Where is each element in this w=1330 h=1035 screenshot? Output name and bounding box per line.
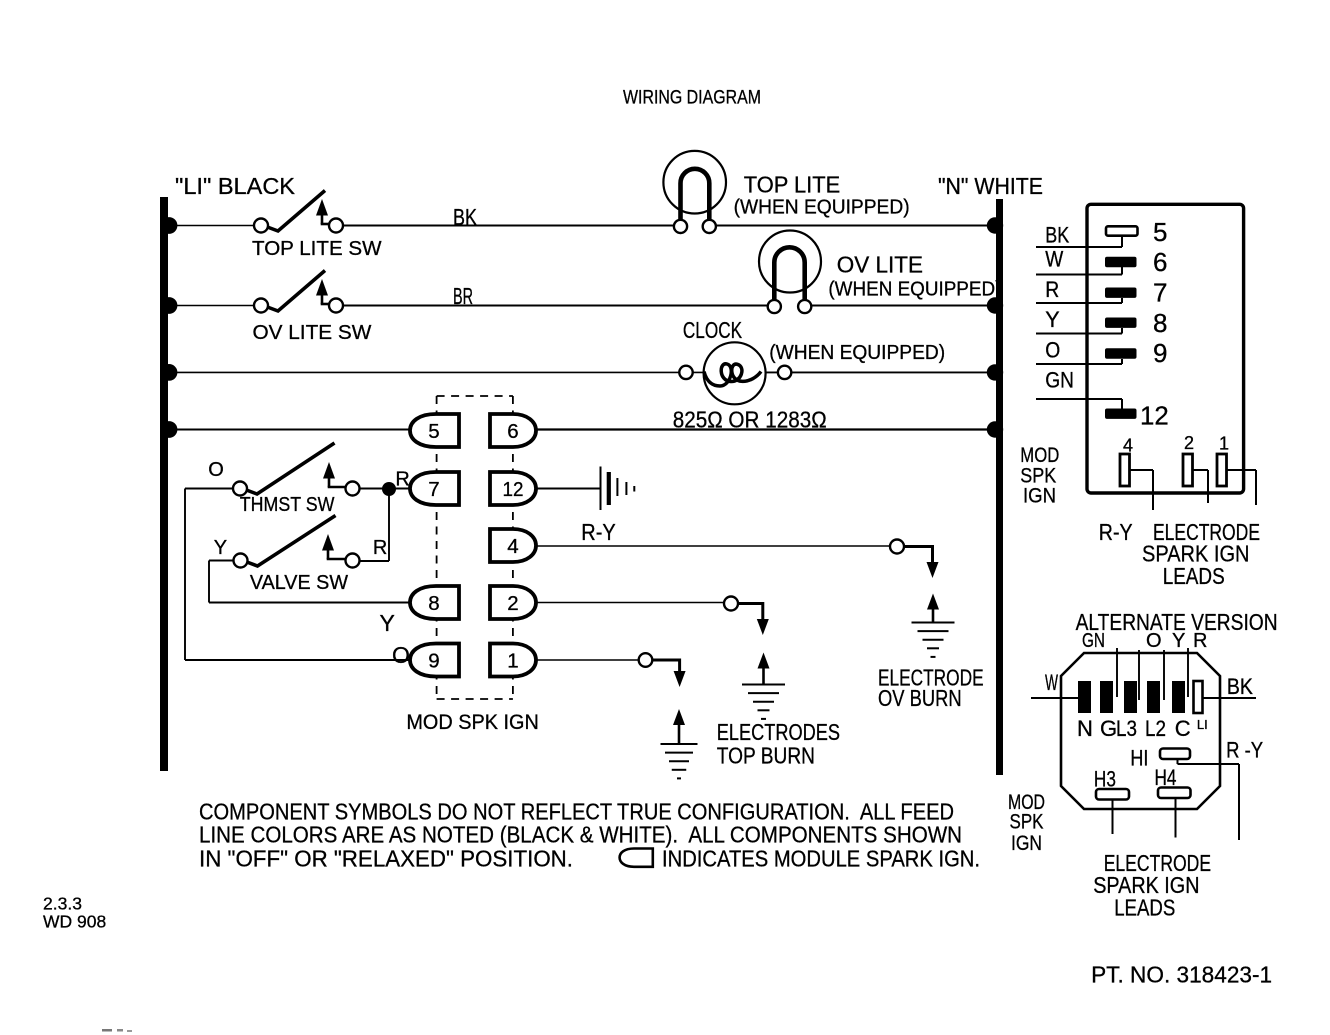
alternate terminal bar 4 — [1147, 681, 1160, 713]
connector MOD SPK IGN block outline — [1087, 204, 1244, 493]
svg-text:6: 6 — [507, 420, 518, 443]
connector pad pin 6 — [1105, 257, 1137, 267]
clock terminal circles — [679, 366, 692, 379]
alternate terminal bar 3 — [1124, 681, 1137, 713]
arrow down top burn 2 — [757, 619, 769, 635]
connector pin 2 spark lead — [1183, 454, 1193, 486]
svg-text:"N" WHITE: "N" WHITE — [938, 173, 1043, 199]
svg-text:1: 1 — [1219, 434, 1229, 454]
wire pin 12 to ground — [536, 488, 600, 490]
terminal pin 12 — [490, 472, 536, 505]
wire pin 4 lead out — [1130, 469, 1154, 471]
lamp terminal circles — [774, 303, 804, 311]
wire valve to junction riser — [360, 560, 390, 562]
switch terminal circles — [254, 299, 268, 313]
svg-text:12: 12 — [1140, 400, 1169, 430]
wire Y feed — [209, 560, 234, 562]
ground — [742, 684, 785, 686]
terminal pin 7 — [410, 472, 459, 505]
connector pin 4 spark lead — [1120, 454, 1130, 486]
svg-text:G: G — [1100, 716, 1117, 741]
wire pin 4 to terminal — [536, 545, 890, 547]
terminal pin 4 — [490, 529, 536, 562]
svg-text:CLOCK: CLOCK — [683, 317, 743, 343]
lamp filament — [774, 247, 804, 301]
wire module pin 6 to N bus — [536, 428, 1000, 430]
wire W alt — [1031, 697, 1078, 699]
alternate terminal bar 2 — [1100, 681, 1113, 713]
svg-text:1: 1 — [507, 649, 518, 672]
ground — [661, 743, 698, 745]
wire top lite switch to N bus (BK) — [343, 225, 1000, 227]
svg-text:OV LITE: OV LITE — [837, 252, 923, 278]
svg-text:THMST SW: THMST SW — [240, 493, 335, 516]
wire BK alt — [1203, 697, 1257, 699]
svg-text:12: 12 — [503, 478, 524, 501]
node O feed wire — [184, 489, 186, 661]
junction on N bus — [987, 297, 1003, 313]
wire R alt — [1187, 648, 1189, 697]
svg-text:5: 5 — [428, 420, 439, 443]
svg-text:R: R — [1045, 277, 1059, 302]
svg-text:Y: Y — [1172, 630, 1185, 652]
svg-text:(WHEN EQUIPPED): (WHEN EQUIPPED) — [769, 341, 945, 364]
alternate connector octagon outline — [1061, 653, 1220, 809]
module spark ign symbol in note — [620, 849, 653, 867]
lamp envelope circle — [759, 231, 821, 293]
svg-text:OV LITE SW: OV LITE SW — [253, 321, 372, 344]
switch arrow — [323, 462, 335, 479]
svg-text:R-Y: R-Y — [581, 519, 615, 545]
svg-text:LEADS: LEADS — [1163, 563, 1225, 589]
svg-text:H4: H4 — [1155, 765, 1177, 790]
wire O feed to pin 9 — [185, 659, 410, 661]
svg-text:O: O — [208, 459, 224, 481]
switch terminal circles — [234, 554, 248, 568]
switch blade — [266, 191, 325, 232]
svg-text:LI: LI — [1197, 717, 1208, 732]
junction on L1 bus — [161, 421, 178, 438]
junction node R — [382, 482, 396, 496]
connector pad pin 7 — [1105, 288, 1137, 298]
wire ov lite switch to N bus (BR) — [343, 305, 1000, 307]
svg-text:9: 9 — [1153, 338, 1167, 368]
connector pin 1 spark lead — [1217, 454, 1227, 486]
junction on L1 bus — [161, 297, 178, 314]
wire H3 lead — [1112, 800, 1114, 835]
ground — [912, 622, 955, 624]
svg-text:W: W — [1045, 247, 1063, 272]
svg-text:HI: HI — [1130, 746, 1148, 771]
svg-text:6: 6 — [1153, 247, 1167, 277]
clock motor circle — [704, 342, 766, 404]
electrode spark gap arrows — [673, 709, 685, 725]
svg-text:BK: BK — [1045, 223, 1069, 248]
switch blade — [266, 271, 325, 312]
svg-text:BK: BK — [1227, 674, 1253, 699]
svg-text:SPK: SPK — [1010, 811, 1044, 834]
svg-text:W: W — [1045, 670, 1058, 695]
svg-text:Y: Y — [214, 537, 227, 559]
lamp filament — [681, 169, 710, 222]
terminal circle pin1 lead — [639, 653, 653, 667]
wire H1 to R-Y — [1177, 759, 1179, 764]
wire L1 to top lite switch — [164, 225, 254, 227]
svg-text:TOP LITE: TOP LITE — [744, 172, 840, 198]
terminal circle pin4 lead — [890, 540, 904, 554]
svg-text:IGN: IGN — [1023, 485, 1056, 508]
junction on L1 bus — [161, 217, 178, 234]
wire pin 1 to terminal — [536, 659, 639, 661]
wire lead BK into connector — [1036, 246, 1122, 248]
terminal circle pin2 lead — [724, 597, 738, 611]
arrow down ov burn — [927, 562, 939, 578]
svg-text:MOD SPK IGN: MOD SPK IGN — [406, 711, 538, 734]
switch blade — [245, 443, 335, 494]
svg-text:IN "OFF" OR "RELAXED" POSITION: IN "OFF" OR "RELAXED" POSITION. — [199, 846, 573, 872]
electrode spark gap arrows — [758, 653, 770, 669]
svg-text:"LI" BLACK: "LI" BLACK — [175, 173, 296, 199]
svg-text:BR: BR — [453, 283, 473, 309]
svg-text:LINE COLORS ARE AS NOTED (BLAC: LINE COLORS ARE AS NOTED (BLACK & WHITE)… — [199, 822, 962, 848]
svg-text:4: 4 — [1123, 436, 1133, 456]
wire L1 to ov lite switch — [164, 305, 254, 307]
clock coil — [704, 364, 761, 386]
lamp envelope circle — [663, 151, 726, 214]
svg-text:R: R — [373, 537, 387, 559]
wire lead W into connector — [1036, 274, 1122, 276]
power bus N white — [996, 199, 1003, 775]
svg-text:C: C — [1175, 716, 1191, 741]
svg-text:TOP LITE SW: TOP LITE SW — [252, 237, 382, 260]
terminal H3 — [1096, 789, 1129, 800]
switch terminal circles — [233, 482, 247, 496]
svg-text:4: 4 — [507, 535, 518, 558]
svg-text:WD 908: WD 908 — [43, 911, 106, 931]
svg-text:VALVE SW: VALVE SW — [250, 571, 349, 594]
alternate terminal bar 5 — [1172, 681, 1185, 713]
svg-text:LEADS: LEADS — [1114, 894, 1175, 920]
junction on L1 bus — [161, 364, 178, 381]
alternate terminal LI hollow — [1194, 681, 1203, 713]
wire pin1 lead corner — [652, 659, 679, 662]
wire lead R into connector — [1036, 302, 1122, 304]
lamp terminal circles — [681, 222, 710, 230]
power bus L1 black — [160, 197, 168, 771]
wire pin4 lead corner — [904, 545, 933, 548]
junction on N bus — [987, 217, 1003, 233]
svg-text:IGN: IGN — [1011, 832, 1042, 855]
wire lead Y into connector — [1036, 333, 1122, 335]
svg-text:R: R — [1193, 630, 1207, 652]
switch blade — [246, 516, 336, 567]
wire junction down to valve sw — [388, 494, 390, 562]
terminal H4 — [1158, 788, 1191, 799]
stray marks bottom left — [102, 1029, 112, 1032]
svg-text:O: O — [392, 642, 410, 668]
wire L1 to clock — [164, 371, 712, 373]
svg-text:Y: Y — [380, 610, 395, 636]
switch arrow — [316, 199, 328, 216]
svg-text:BK: BK — [453, 204, 478, 230]
svg-text:Y: Y — [1045, 307, 1060, 332]
svg-text:2: 2 — [507, 592, 518, 615]
terminal pin 6 — [490, 414, 536, 447]
svg-text:(WHEN EQUIPPED): (WHEN EQUIPPED) — [828, 278, 1001, 301]
svg-text:H3: H3 — [1094, 766, 1116, 791]
svg-text:GN: GN — [1045, 368, 1074, 393]
connector pad pin 9 — [1105, 348, 1137, 358]
connector pad pin 8 — [1105, 318, 1137, 328]
wire pin 2 to terminal — [536, 602, 724, 604]
wire lead O into connector — [1036, 363, 1122, 365]
svg-text:2: 2 — [1184, 433, 1194, 453]
terminal pin 9 — [410, 644, 459, 677]
svg-text:(WHEN EQUIPPED): (WHEN EQUIPPED) — [734, 196, 910, 219]
terminal pin 2 — [490, 586, 536, 619]
svg-text:5: 5 — [1153, 217, 1167, 247]
wire thmst to junction — [360, 488, 411, 490]
svg-text:INDICATES MODULE SPARK IGN.: INDICATES MODULE SPARK IGN. — [662, 846, 980, 872]
module spark ign dashed outline — [436, 396, 438, 699]
svg-text:ELECTRODES: ELECTRODES — [717, 719, 840, 745]
wire H4 lead — [1175, 798, 1177, 838]
svg-text:9: 9 — [428, 649, 439, 672]
svg-text:PT. NO. 318423-1: PT. NO. 318423-1 — [1091, 962, 1272, 988]
alternate terminal bar 1 — [1078, 681, 1091, 713]
svg-text:GN: GN — [1082, 630, 1105, 652]
svg-text:TOP BURN: TOP BURN — [717, 742, 815, 768]
switch arrow — [322, 534, 334, 551]
wire pin 1 lead out — [1227, 469, 1257, 471]
junction on N bus — [987, 421, 1003, 437]
svg-text:O: O — [1045, 337, 1060, 362]
svg-text:N: N — [1077, 716, 1093, 741]
svg-text:8: 8 — [428, 592, 439, 615]
connector pad pin 5 — [1106, 226, 1138, 235]
svg-text:8: 8 — [1153, 308, 1167, 338]
wire pin2 lead corner — [738, 602, 763, 605]
terminal pin 8 — [410, 586, 459, 619]
electrode spark gap arrows — [927, 594, 939, 610]
wire clock to N bus — [756, 371, 1000, 373]
wire lead GN into connector — [1036, 398, 1122, 400]
svg-text:OV BURN: OV BURN — [878, 685, 962, 711]
wire Y alt — [1163, 650, 1165, 700]
terminal pin 5 — [410, 414, 459, 447]
svg-text:7: 7 — [428, 478, 439, 501]
switch arrow — [316, 279, 328, 296]
arrow down top burn 1 — [674, 671, 686, 687]
wire O alt — [1138, 650, 1140, 700]
svg-text:825Ω OR 1283Ω: 825Ω OR 1283Ω — [673, 407, 827, 433]
svg-text:R: R — [395, 468, 409, 490]
switch terminal circles — [254, 219, 268, 233]
svg-text:L2: L2 — [1145, 716, 1166, 741]
terminal H1 — [1160, 749, 1190, 760]
connector pad pin 12 — [1105, 409, 1137, 419]
svg-text:7: 7 — [1153, 278, 1167, 308]
svg-text:R-Y: R-Y — [1099, 519, 1133, 545]
junction on N bus — [987, 364, 1003, 380]
terminal pin 1 — [490, 644, 536, 677]
wire L1 to module pin 5 — [164, 429, 410, 431]
wire GN alt — [1116, 648, 1118, 697]
svg-text:O: O — [1146, 630, 1162, 652]
ground pin 12 — [600, 467, 602, 511]
svg-text:WIRING DIAGRAM: WIRING DIAGRAM — [623, 88, 761, 109]
svg-text:R -Y: R -Y — [1226, 737, 1263, 762]
wire pin 2 lead out — [1193, 469, 1209, 471]
svg-text:L3: L3 — [1116, 716, 1137, 741]
